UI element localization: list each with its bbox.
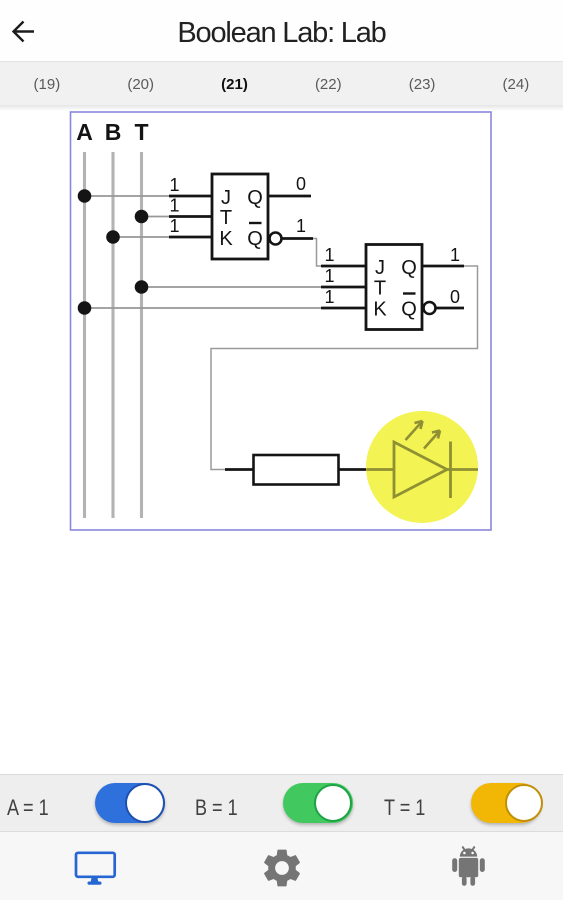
- svg-text:K: K: [219, 228, 233, 250]
- LED D1 anode wire: [367, 468, 395, 471]
- wire bus A: [83, 152, 86, 518]
- switch T track: [471, 783, 541, 823]
- U2 Qbar overbar: [403, 292, 416, 294]
- back arrow: [11, 20, 37, 44]
- LED D1 glow circle: [366, 411, 478, 523]
- wire U2 T input: [321, 286, 366, 289]
- U1 Qbar bubble: [270, 233, 282, 245]
- wire U1 Q output: [268, 195, 311, 198]
- U1 Qbar overbar: [249, 222, 262, 224]
- svg-text:1: 1: [324, 245, 334, 265]
- junction on A: [78, 189, 92, 203]
- switch A thumb: [125, 783, 165, 823]
- svg-text:J: J: [221, 187, 231, 209]
- LED D1 emission arrow 1: [406, 421, 423, 440]
- svg-text:Q: Q: [247, 228, 263, 250]
- svg-text:Q: Q: [401, 299, 417, 321]
- wire U2.Q feedback loop: [211, 266, 478, 470]
- svg-text:1: 1: [296, 216, 306, 236]
- junction on T lower: [135, 280, 149, 294]
- switch A track: [95, 783, 165, 823]
- wire T to U1.T: [142, 216, 171, 218]
- svg-text:T: T: [374, 278, 386, 300]
- svg-text:1: 1: [324, 287, 334, 307]
- wire U1 Qbar output: [282, 237, 313, 240]
- svg-text:0: 0: [296, 174, 306, 194]
- svg-text:1: 1: [169, 196, 179, 216]
- U2 Qbar bubble: [424, 302, 436, 314]
- LED D1 triangle: [394, 442, 447, 497]
- wire U2 Qbar output: [436, 307, 464, 310]
- wire bus T: [140, 152, 143, 518]
- junction on B: [106, 230, 120, 244]
- wire into resistor R1: [225, 468, 254, 471]
- svg-text:J: J: [375, 257, 385, 279]
- LED D1 emission arrow 2: [424, 431, 440, 449]
- flip-flop U2 body: [366, 245, 422, 330]
- wire U2 K input: [321, 307, 366, 310]
- svg-text:B: B: [105, 119, 122, 145]
- switch T thumb: [505, 784, 543, 822]
- wire U1.Qbar to U2.J: [313, 239, 322, 267]
- wire U1 K input: [169, 236, 212, 239]
- wire R1 to LED: [339, 468, 369, 471]
- svg-text:T: T: [134, 119, 148, 145]
- switch B thumb: [314, 784, 352, 822]
- wire U1 T input: [169, 215, 212, 218]
- svg-text:K: K: [373, 299, 387, 321]
- wire U1 J input: [169, 195, 212, 198]
- junction on T: [135, 210, 149, 224]
- wire bus B: [111, 152, 114, 518]
- svg-text:T: T: [220, 207, 232, 229]
- svg-text:1: 1: [169, 175, 179, 195]
- junction on A lower: [78, 301, 92, 315]
- nav icon monitor: [72, 848, 119, 888]
- nav icon settings gear: [259, 845, 305, 891]
- LED D1 cathode bar: [449, 442, 452, 499]
- resistor R1: [254, 455, 339, 485]
- wire A to U2.K: [85, 307, 323, 309]
- circuit frame: [71, 112, 492, 530]
- wire T to U2.T: [142, 286, 323, 288]
- wire A to U1.J: [85, 195, 171, 197]
- svg-text:A: A: [76, 119, 93, 145]
- nav icon android robot: [450, 845, 487, 887]
- flip-flop U1 body: [212, 174, 268, 259]
- wire U2 J input: [321, 265, 366, 268]
- svg-text:1: 1: [169, 216, 179, 236]
- svg-text:Q: Q: [401, 257, 417, 279]
- switch B track: [283, 783, 353, 823]
- svg-text:0: 0: [450, 287, 460, 307]
- wire U2 Q output: [422, 265, 464, 268]
- LED D1 cathode wire: [447, 468, 478, 471]
- svg-text:1: 1: [324, 266, 334, 286]
- svg-text:Q: Q: [247, 187, 263, 209]
- svg-text:1: 1: [450, 245, 460, 265]
- wire B to U1.K: [113, 236, 170, 238]
